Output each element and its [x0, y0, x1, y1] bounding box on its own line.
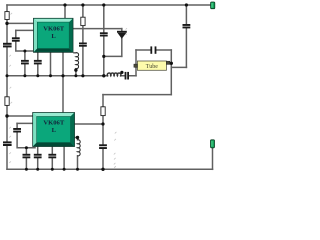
- wire IC1 top pin: [64, 5, 66, 19]
- capacitor C5 plates (ballast right): [183, 24, 191, 26]
- wire C1 branch vertical: [16, 30, 38, 51]
- wire IC2 bottom pin: [63, 147, 65, 169]
- wire tube right to ballast cap: [171, 66, 186, 68]
- wire cap drop x26: [25, 148, 27, 170]
- capacitor CA plates: [21, 60, 29, 62]
- junction dot y147: [25, 146, 28, 149]
- wire cap drop x52: [51, 147, 53, 169]
- value label marks (faint): [9, 13, 127, 168]
- node junction1: [5, 22, 8, 25]
- diode D1: [117, 31, 127, 33]
- wire ground bus: [7, 75, 104, 77]
- svg-text:L: L: [52, 127, 57, 134]
- capacitor C11 plates (return line): [99, 144, 107, 146]
- terminal J1 (top right): [211, 2, 215, 9]
- wire IC1 winding to bus: [75, 69, 77, 76]
- capacitor C2 plates (left rail upper): [3, 43, 12, 45]
- capacitor C1 plates: [12, 37, 20, 39]
- wire IC1 bottom pin4 to IC2 top pin: [62, 52, 64, 113]
- wire R2 leg from top rail: [82, 5, 84, 76]
- capacitor C12 plates (series with L1): [125, 72, 127, 80]
- wire node A junction1 to IC1 pin: [7, 22, 34, 24]
- wire cap CB drop: [37, 51, 39, 76]
- wire tube right vertical: [170, 50, 172, 95]
- winding polarity dot T1a: [74, 68, 77, 71]
- wire bottom rail: [7, 168, 213, 170]
- resistor R2: [81, 17, 85, 25]
- capacitor C4 plates (startup line): [100, 32, 108, 34]
- wire return path vertical x103: [102, 95, 104, 170]
- junction dot tube right pin: [170, 62, 173, 65]
- op-amp U1 VK06T (upper IC): [34, 18, 74, 52]
- junction dots ground bus: [6, 74, 9, 77]
- svg-text:VK06T: VK06T: [43, 120, 64, 127]
- wire cap drop x37: [37, 147, 39, 169]
- wire C6 branch vertical: [17, 123, 35, 147]
- junction dots top rail: [63, 3, 66, 6]
- capacitor C3 plates (R2 leg): [79, 43, 87, 45]
- winding polarity dot T1b: [76, 136, 79, 139]
- wire cap CA drop: [24, 51, 26, 76]
- junction dot startup node: [102, 55, 105, 58]
- svg-text:VK06T: VK06T: [43, 25, 64, 32]
- wire ballast cap riser x186: [185, 5, 187, 67]
- capacitor CB plates: [34, 60, 42, 62]
- junction dot IC2 right pin: [101, 122, 104, 125]
- wire IC2 winding to rail: [77, 156, 79, 170]
- wire junction2 to IC2 pin: [7, 115, 33, 117]
- resistor R3: [5, 97, 9, 106]
- junction dots bottom rail: [25, 168, 28, 171]
- winding polarity dot L1: [120, 71, 123, 74]
- wire startup line x104: [103, 5, 105, 76]
- transformer winding T1b (IC2 spring): [77, 140, 80, 156]
- svg-text:L: L: [51, 33, 56, 40]
- wire return path horizontal y94.6: [103, 94, 171, 96]
- wire tube left riser: [135, 50, 137, 76]
- node junction2: [5, 114, 8, 117]
- wire diode cathode to startup node: [104, 55, 122, 57]
- wire left rail: [6, 5, 8, 169]
- wire IC1 left pin2: [16, 29, 34, 31]
- resistor R4: [101, 107, 105, 116]
- wire IC1 bottom pin3: [50, 52, 52, 76]
- junction dot y51: [23, 50, 26, 53]
- capacitor C6 plates (lower branch): [13, 128, 21, 130]
- capacitor C13 plates (resonant over tube): [150, 46, 152, 53]
- lamp Tube: [134, 61, 170, 70]
- wire IC2 right pin: [75, 123, 104, 125]
- capacitor C8 plates x26: [23, 154, 31, 156]
- capacitor C9 plates x37: [34, 154, 42, 156]
- wire top rail: [7, 4, 211, 6]
- wire diode cathode down: [121, 29, 123, 57]
- wire IC1 winding stub: [74, 52, 76, 54]
- wire resonant cap loop top: [136, 49, 171, 51]
- capacitor C7 plates (left rail lower): [3, 141, 12, 143]
- wire ballast inductor baseline: [104, 75, 136, 77]
- terminal J2 (bottom right): [211, 140, 215, 148]
- inductor L1 horizontal: [107, 73, 121, 76]
- resistor R1: [5, 12, 9, 20]
- op-amp U2 VK06T (lower IC): [33, 113, 75, 147]
- svg-text:Tube: Tube: [146, 64, 158, 70]
- transformer winding T1a (IC1 spring): [76, 53, 79, 69]
- wire IC1 right pin to diode: [73, 28, 122, 30]
- capacitor C10 plates x52: [48, 154, 56, 156]
- wire IC2 winding stub: [75, 138, 78, 140]
- wire IC2 left pin2: [17, 122, 33, 124]
- wire terminal2 drop: [212, 148, 214, 170]
